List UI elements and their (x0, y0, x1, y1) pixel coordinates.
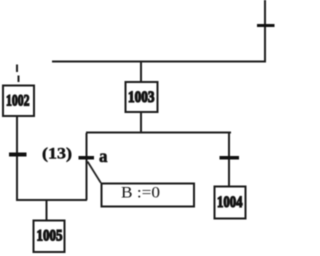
wire: top rail horizontal (52, 61, 266, 63)
svg-text:(13): (13) (42, 146, 72, 163)
step 1002 (3, 86, 34, 117)
transition bar a (79, 156, 95, 160)
transition bar (13) (9, 153, 27, 157)
wire: step 1002 down to merge (16, 117, 18, 201)
step 1003 (126, 82, 158, 112)
svg-text:1002: 1002 (6, 93, 30, 110)
svg-text:1005: 1005 (37, 228, 63, 245)
transition bar right branch (220, 156, 240, 160)
wire: top-right vertical drop (264, 0, 266, 61)
step 1005 (34, 221, 65, 253)
action box B := 0 (102, 184, 195, 207)
wire: middle branch vertical (86, 133, 88, 200)
wire: leader from transition a to action box (88, 162, 101, 183)
transition bar top-right (257, 24, 275, 27)
wire: dashed link into step 1002 (dash 1) (16, 65, 18, 73)
wire: dashed link into step 1002 (dash 2) (18, 76, 20, 83)
wire: selection divergence rail (86, 132, 231, 134)
wire: selection merge rail (16, 199, 87, 201)
wire: right branch vertical (228, 133, 230, 186)
svg-text:B :=0: B :=0 (121, 185, 160, 202)
wire: step 1003 down to divergence (140, 112, 142, 132)
wire: stub from top rail to step 1003 (140, 62, 142, 82)
svg-text:1004: 1004 (217, 194, 243, 211)
wire: stub from merge to step 1005 (46, 201, 48, 220)
step 1004 (215, 187, 246, 219)
svg-text:a: a (99, 146, 108, 166)
svg-text:1003: 1003 (128, 89, 155, 106)
